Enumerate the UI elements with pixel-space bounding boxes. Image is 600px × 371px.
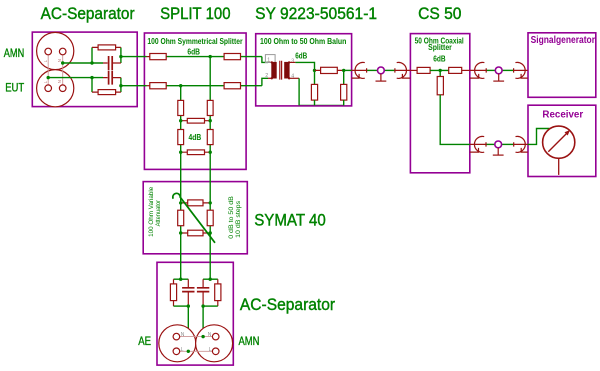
connector X6 arc [516,136,526,152]
junction on N link [61,61,64,64]
connector X4 shield tail [521,74,528,78]
wire vertical branch right x210 [209,57,211,280]
junction R13 right [342,69,345,72]
junction R13 left [313,69,316,72]
svg-text:CS 50: CS 50 [418,5,461,23]
resistor R16 lead left [410,69,417,71]
svg-text:6dB: 6dB [295,50,307,60]
transformer T1 pin2 lead [268,77,271,79]
svg-text:10 dB steps: 10 dB steps [235,201,242,238]
resistor R21 vertical [207,210,213,226]
capacitor C2 [109,71,113,85]
resistor R2 [98,90,116,95]
resistor R24 leads [217,279,219,306]
wire between R16 R17 [430,69,449,71]
connector X2 shield tail [402,74,410,78]
resistor R14 vertical [311,84,317,100]
junction entry right x210 [209,278,212,281]
outlet socket circle bottom (EUT) [37,70,74,107]
resistor R10 vertical [178,130,184,145]
meter M1 circle [543,126,575,158]
box SPLIT 100 [144,33,246,169]
junction R22 left [179,231,182,234]
svg-text:L: L [181,347,184,353]
wire right riser bottom [120,78,122,93]
junction bottom rail left [187,304,190,307]
connector X3 shield tail [470,74,479,78]
resistor R5 [150,83,166,89]
wire CS down [440,95,470,145]
box AC-Separator bottom [157,262,233,365]
wire trio A segment 2 [384,69,395,71]
pin link line right (N) [62,55,64,85]
resistor R13 leads [315,69,344,71]
resistor R22 bridge leads [181,232,211,234]
pin circle left-L [173,348,180,355]
resistor R9 bridge1 leads [181,120,211,122]
transformer T1 polarity frame (grey) [265,55,275,63]
wire row1 SPLIT to SY [241,56,262,58]
svg-text:AC-Separator: AC-Separator [240,296,336,314]
svg-text:N: N [208,332,212,338]
svg-text:AMN: AMN [239,336,260,348]
svg-text:AMN: AMN [4,48,24,60]
capacitor C1 [109,56,113,70]
transformer T1 pin3 lead [290,61,296,63]
transformer T1 pin4 lead [290,77,300,79]
svg-text:0 dB to 50 dB: 0 dB to 50 dB [228,196,235,239]
pin circle right-N [212,333,219,340]
pin circle left-N [173,333,180,340]
resistor R4 [224,54,240,60]
junction bridge1 right [209,119,212,122]
wire trio B segment 2 [502,69,513,71]
resistor R3 [150,54,166,60]
junction at RC left top [90,61,93,64]
junction R19 right [209,201,212,204]
wire left riser top [91,47,93,63]
box SY 9223-50561-1 [256,34,352,106]
resistor R5 lead [147,85,150,87]
resistor R15 vertical [341,84,347,100]
connector X3 arc [475,62,485,78]
transformer T1 core [280,61,282,80]
resistor R24 vertical [215,284,221,301]
junction bridge1 left [179,119,182,122]
svg-text:N: N [181,332,185,338]
resistor R9 bridge1 [187,118,204,123]
wire top rail right group [203,278,218,280]
svg-text:Attenuator: Attenuator [155,200,162,226]
test point TP1 stem [380,74,382,81]
wire trio C segment 2 [502,143,514,145]
svg-text:100 Ohm Symmetrical Splitter: 100 Ohm Symmetrical Splitter [147,36,243,46]
wire Receiver input jog [528,129,550,145]
pin circle top-right [59,48,66,55]
pin circle right-L [212,348,219,355]
resistor R18 vertical [437,77,443,95]
svg-text:SYMAT 40: SYMAT 40 [254,211,326,229]
junction bridge2 left [179,151,182,154]
svg-text:6dB: 6dB [433,54,445,64]
svg-text:N: N [57,59,62,62]
capacitor C4 [197,288,209,292]
resistor R17 lead right [462,69,470,71]
transformer T1 pin contact dots [271,61,273,63]
wire bottom rail left group [174,305,189,307]
connector X5 pin (from CS50) [470,142,486,146]
box SYMAT 40 [143,182,247,254]
junction on N link [201,335,204,338]
meter M1 needle [548,133,567,152]
connector X1 arc [355,62,365,78]
test point TP2 bar [493,80,504,82]
svg-text:AE: AE [138,336,151,348]
resistor R1 [98,45,116,50]
svg-text:SY 9223-50561-1: SY 9223-50561-1 [255,5,377,23]
wire bottom rail right group [203,305,218,307]
test point TP3 bar [493,154,504,156]
svg-text:EUT: EUT [5,82,24,94]
resistor R19 bridge top [188,200,203,206]
svg-text:3: 3 [291,58,294,64]
connector X5 shield tail [470,148,479,152]
test point TP1 circle [378,67,385,74]
svg-text:Receiver: Receiver [542,109,583,120]
junction output row1 [119,55,122,58]
junction R19 left [179,201,182,204]
wire row2 inside SPLIT [166,85,224,87]
wire row1 inside SPLIT [166,56,224,58]
variable attenuator arrow (diagonal) [173,193,215,242]
resistor R7 vertical [178,100,184,115]
capacitor C4 leads [202,279,204,306]
wire net EUT-row to RC network [48,77,103,79]
box Signalgenerator [528,33,596,98]
test point TP3 circle [495,141,502,148]
test point TP3 stem [497,148,499,155]
wire trio C segment 1 [486,143,495,145]
junction bottom rail right [201,304,204,307]
connector X2 arc [397,62,407,78]
meter M1 bottom stub [558,158,560,175]
resistor R1 leads [92,46,121,48]
wire CS tee riser [439,70,441,76]
capacitor C2 leads [103,77,121,79]
connector X4 pin (from Signalgenerator) [514,68,528,72]
resistor R12 bridge2 leads [181,151,211,153]
wire SY bottom ground rail [299,104,344,106]
resistor R8 vertical [207,100,213,115]
svg-text:N: N [57,80,62,83]
svg-text:1: 1 [267,57,270,63]
capacitor C1 leads [103,62,121,64]
junction bridge2 right [209,151,212,154]
wire row2 SPLIT to SY [241,85,262,87]
resistor R2 leads [92,91,121,93]
connector X5 arc [474,136,484,152]
outlet socket circle right (AMN) [196,325,233,362]
transformer T1 primary coil [271,62,276,79]
outlet socket circle top (AMN) [37,32,74,69]
svg-text:2: 2 [265,73,268,79]
resistor R6 [224,83,240,89]
resistor R23 vertical [170,284,176,301]
transformer T1 pin1 lead [268,61,271,63]
resistor R17 [449,67,462,73]
connector X4 arc [515,62,525,78]
wire trio A segment 1 [367,69,378,71]
wire left riser bottom [91,78,93,93]
wire drop to L link [187,306,189,351]
test point TP2 circle [495,67,502,74]
resistor R12 bridge2 [187,150,204,155]
wire SY input 1 (jog to pin1) [262,57,268,63]
connector X6 pin (from Receiver) [514,142,528,146]
svg-text:SPLIT 100: SPLIT 100 [160,5,231,23]
junction CS tee [439,69,442,72]
wire right riser top [120,47,122,63]
svg-text:Signalgenerator: Signalgenerator [531,35,595,46]
wire R14 riser [314,70,316,84]
resistor R23 leads [173,279,175,306]
wire drop to N link [202,306,204,337]
junction row2 x180 [179,84,182,87]
pin circle top-left [45,48,52,55]
wire net AMN-row to RC network [63,62,103,64]
wire R15 riser [343,70,345,84]
box Receiver [528,105,596,176]
resistor R16 [417,67,430,73]
pin link line left (L) [47,55,49,85]
outlet socket circle left (AE) [159,325,196,362]
test point TP1 bar [376,80,387,82]
junction row1 x210 [209,55,212,58]
junction on L link [47,76,50,79]
svg-text:L: L [209,347,212,353]
wire pin4 down to rail [298,78,300,105]
box CS 50 [410,34,469,173]
svg-text:4dB: 4dB [189,132,202,142]
connector X1 pin (from SY) [352,68,367,72]
wire R15 to rail [343,100,345,105]
wire R14 to rail [314,100,316,105]
pin circle bottom-left [45,85,52,92]
resistor R11 vertical [207,130,213,145]
meter M1 needle arrowhead [565,130,571,136]
capacitor C3 leads [187,279,189,306]
junction at RC left bottom [90,76,93,79]
junction on L link [187,350,190,353]
resistor R13 [321,67,338,73]
test point TP2 stem [498,74,500,81]
capacitor C3 [182,288,194,292]
wire SY input 2 (jog to pin2) [262,78,268,85]
svg-text:L: L [43,80,48,83]
wire vertical branch left x180 [180,86,182,280]
resistor R22 bridge bottom [188,230,203,236]
pin circle bottom-right [59,85,66,92]
svg-text:100 Ohm to 50 Ohm Balun: 100 Ohm to 50 Ohm Balun [260,36,346,46]
pin link N row [180,336,213,338]
wire pin3 to junction [295,62,314,70]
connector X3 pin (from CS50) [470,68,486,72]
resistor R19 bridge leads [181,202,211,204]
connector X2 pin (from CS50) [395,68,410,72]
svg-text:6dB: 6dB [187,46,200,56]
junction output row2 [119,84,122,87]
transformer T1 secondary coil [284,62,289,79]
junction R22 right [209,231,212,234]
svg-text:AC-Separator: AC-Separator [41,5,136,23]
connector X1 shield tail [352,74,360,78]
junction entry left x180 [179,278,182,281]
wire trio B segment 1 [486,69,495,71]
svg-text:Splitter: Splitter [428,42,452,52]
wire output row1 to SPLIT [121,56,147,58]
box AC-Separator top [32,32,137,107]
resistor R20 vertical [178,210,184,226]
wire top rail left group [174,278,189,280]
connector X6 shield tail [521,148,528,152]
wire SY output to edge [344,69,352,71]
resistor R3 lead [147,56,150,58]
wire output row2 to SPLIT [121,85,147,87]
svg-text:L: L [43,59,48,62]
pin link L row [180,350,213,352]
